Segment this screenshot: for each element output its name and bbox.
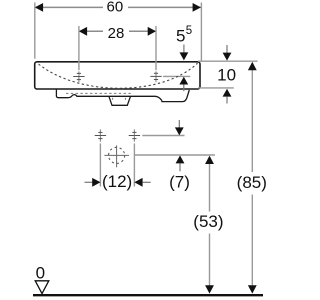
dim 53 vertical line — [209, 164, 211, 212]
dim 7 down arrow — [178, 120, 180, 128]
bottom view cross right — [133, 129, 135, 141]
dim 85 vertical line — [251, 70, 253, 172]
svg-text:0: 0 — [36, 264, 45, 283]
dim 10 up arrow — [223, 89, 232, 97]
basin rect front view — [35, 62, 200, 89]
dim 7 up arrow — [176, 155, 185, 163]
dim 28 arrows — [79, 27, 87, 36]
dim 12 ext lines — [99, 143, 101, 186]
dim 10 bottom line — [198, 87, 234, 89]
drain crosshair — [104, 154, 129, 156]
svg-text:5: 5 — [176, 27, 185, 46]
dim 60 arrows — [35, 3, 43, 12]
svg-text:(7): (7) — [169, 173, 190, 192]
dim 28 ext line right — [155, 26, 157, 70]
dim 60 ext left — [34, 3, 36, 59]
dim 5.5 down arrow — [183, 45, 185, 54]
dim 60 ext right — [200, 3, 202, 62]
svg-text:(85): (85) — [237, 173, 267, 192]
tap cross front right — [150, 73, 161, 79]
dim 10 down arrow — [226, 45, 228, 54]
svg-text:60: 60 — [107, 0, 124, 16]
hidden dashed line under basin — [66, 92, 131, 94]
svg-text:5: 5 — [186, 25, 192, 37]
dim 5.5 up arrow — [179, 77, 188, 85]
dim 53 up arrow — [205, 156, 214, 164]
svg-text:(12): (12) — [102, 172, 132, 191]
basin underside profile — [56, 89, 189, 101]
siphon cover bump — [109, 96, 131, 105]
dim 12 left arrow — [85, 181, 93, 183]
dim 10 top line — [198, 60, 258, 62]
ground line — [33, 294, 263, 296]
dim 7 top line — [142, 135, 184, 137]
svg-text:28: 28 — [108, 25, 125, 42]
dim 85 down arrow — [248, 285, 257, 293]
tap hole level line — [163, 75, 190, 77]
svg-text:(53): (53) — [193, 212, 223, 231]
dim 12 right arrow — [134, 178, 142, 187]
dim 7 bottom line — [134, 154, 215, 156]
dim 60 line — [35, 6, 202, 8]
dim 28 ext line left — [78, 26, 80, 70]
drain circle dashed — [109, 147, 125, 163]
datum triangle — [35, 281, 49, 294]
drain pipe dashes in bump — [112, 98, 114, 101]
dim 28 line — [79, 30, 156, 32]
bottom view cross left — [99, 129, 101, 141]
svg-text:10: 10 — [217, 65, 236, 84]
basin bowl dashed curve — [39, 63, 198, 88]
dim 85 up arrow — [248, 62, 257, 70]
tap cross front left — [73, 73, 84, 79]
dim 53 down arrow — [205, 285, 214, 293]
